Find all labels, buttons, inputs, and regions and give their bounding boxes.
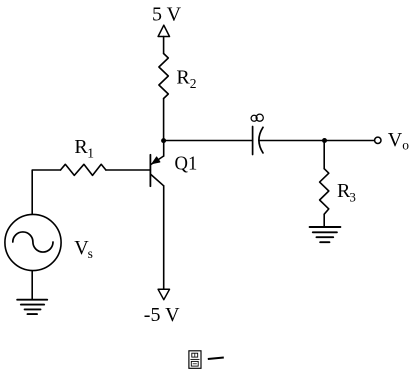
label R2 bbox=[176, 67, 196, 92]
resistor R1 bbox=[61, 164, 106, 175]
capacitor C1 left plate bbox=[252, 127, 254, 155]
ground below R3 bbox=[310, 227, 341, 242]
node B output junction bbox=[322, 138, 327, 143]
wire Q1 lower lead to -5V arrow bbox=[163, 186, 165, 289]
svg-text:Vo: Vo bbox=[388, 129, 409, 153]
wire R1 to Vs corner bbox=[32, 170, 60, 214]
label capacitor value infinity bbox=[251, 114, 263, 121]
svg-text:R1: R1 bbox=[74, 136, 94, 161]
svg-text:R2: R2 bbox=[176, 67, 196, 92]
label Vs bbox=[74, 237, 93, 261]
power arrow +5V bbox=[158, 25, 169, 36]
wire node B to output terminal bbox=[325, 140, 375, 142]
resistor R2 bbox=[159, 54, 168, 99]
svg-text:Q1: Q1 bbox=[175, 152, 198, 174]
transistor Q1 bbox=[150, 141, 163, 187]
label Q1 bbox=[175, 152, 198, 174]
wire Q1 base to R1 bbox=[106, 169, 150, 171]
terminal Vo open circle bbox=[375, 137, 381, 143]
wire node B to R3 bbox=[323, 141, 325, 169]
wire R3 to ground bbox=[323, 214, 325, 227]
ground below Vs bbox=[17, 300, 47, 314]
label +5V supply bbox=[152, 4, 182, 26]
label R1 bbox=[74, 136, 94, 161]
wire capacitor to node B bbox=[259, 140, 325, 142]
resistor R3 bbox=[320, 169, 329, 215]
label R3 bbox=[337, 180, 356, 205]
source Vs bbox=[5, 214, 61, 270]
capacitor C1 right curved plate bbox=[259, 127, 263, 153]
svg-text:Vs: Vs bbox=[74, 237, 93, 261]
wire +5V arrow to R2 bbox=[163, 37, 165, 54]
power arrow -5V bbox=[158, 289, 169, 299]
caption 圖一 figure one bbox=[189, 351, 224, 369]
wire Vs to ground bbox=[31, 271, 33, 300]
label Vo bbox=[388, 129, 409, 153]
svg-text:5 V: 5 V bbox=[152, 4, 182, 26]
svg-text:R3: R3 bbox=[337, 180, 356, 205]
svg-text:-5 V: -5 V bbox=[144, 304, 180, 326]
wire R2 to node A bbox=[163, 99, 165, 141]
label -5V supply bbox=[144, 304, 180, 326]
wire node A to capacitor bbox=[164, 140, 253, 142]
node A collector junction bbox=[161, 138, 166, 143]
